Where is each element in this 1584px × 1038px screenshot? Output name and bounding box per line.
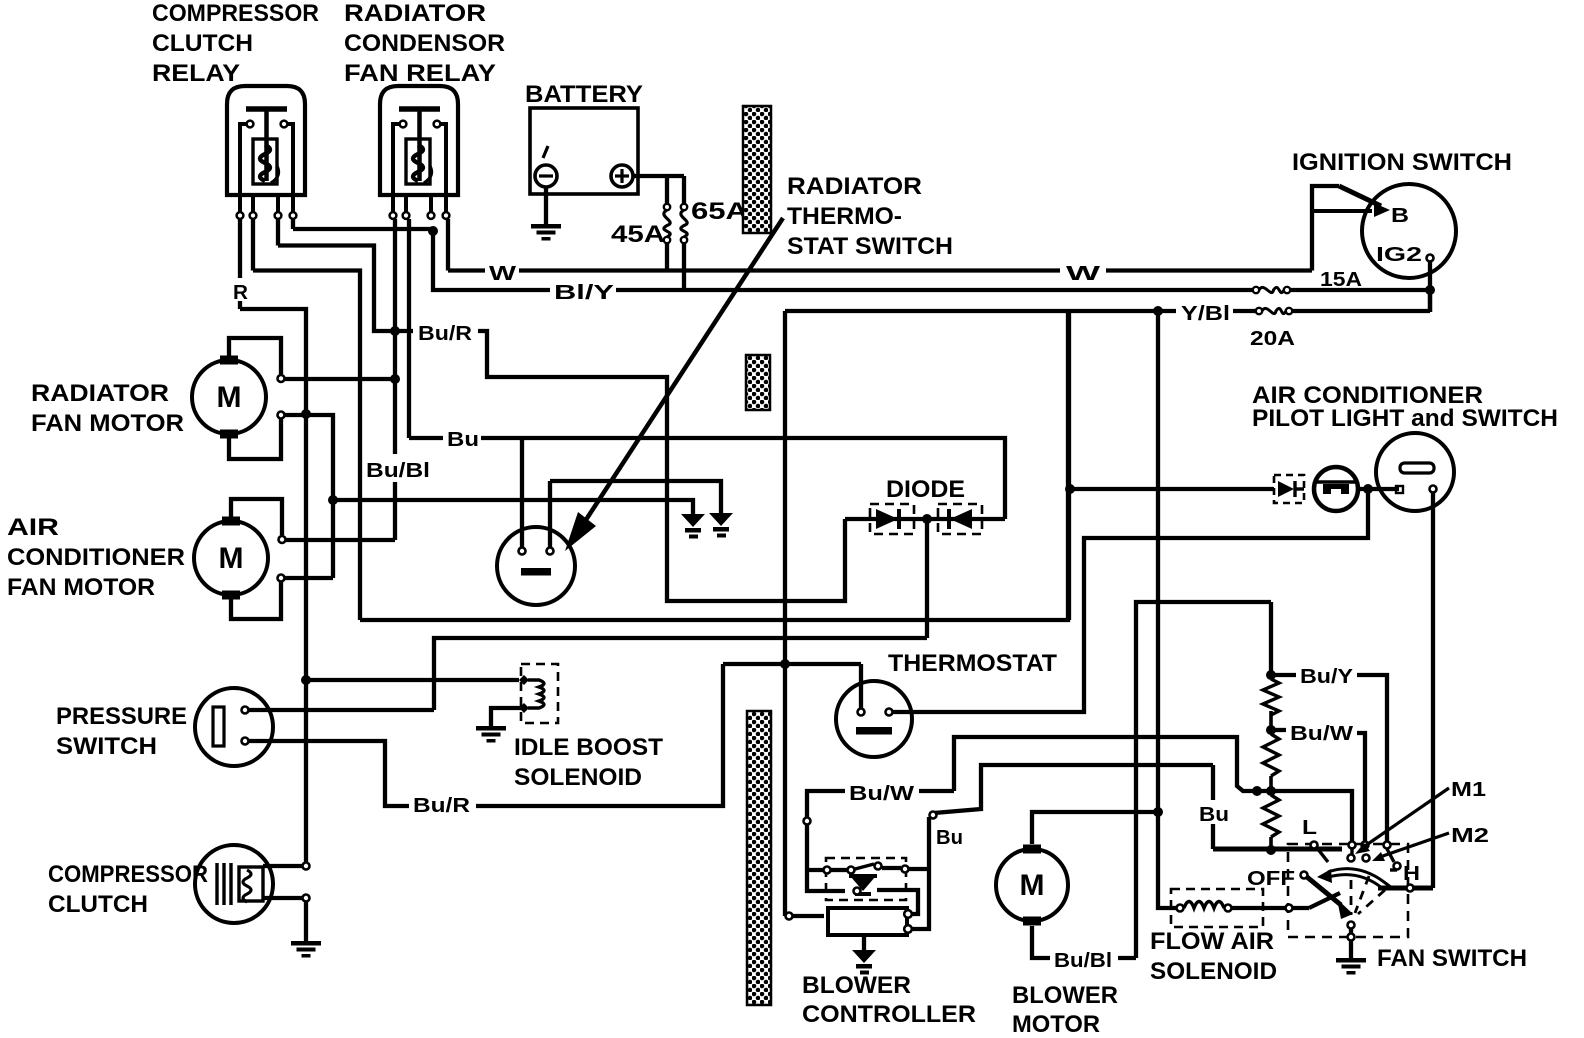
- idle boost solenoid coil: [519, 675, 544, 713]
- motor M3 blower: [996, 845, 1068, 926]
- svg-text:SOLENOID: SOLENOID: [1150, 958, 1277, 985]
- wire diode middle down to y638 bus: [925, 519, 929, 638]
- pilot lamp: [1314, 467, 1358, 511]
- wire M1 bottom wrap to lower terminal: [229, 419, 281, 459]
- svg-text:CONDENSOR: CONDENSOR: [344, 30, 505, 57]
- svg-text:THERMO-: THERMO-: [787, 203, 902, 230]
- wire K2 pin1 down Bu/Bl: [393, 219, 397, 540]
- flow air solenoid coil: [1177, 902, 1232, 912]
- node junction diode middle: [922, 514, 932, 524]
- blower controller switch: [805, 863, 929, 874]
- wire R net to idle boost solenoid: [306, 678, 519, 682]
- relay K2 radiator condensor fan relay: [380, 86, 458, 219]
- node junction y791 small: [1252, 786, 1262, 796]
- wire K2 pin2 to Bu label: [409, 219, 443, 438]
- svg-text:R: R: [233, 282, 249, 304]
- svg-text:DIODE: DIODE: [886, 476, 965, 503]
- wire Bu/Y to fan switch top: [1357, 675, 1387, 841]
- terminal clutch upper: [303, 863, 310, 870]
- svg-text:CONTROLLER: CONTROLLER: [802, 1001, 976, 1028]
- svg-text:SOLENOID: SOLENOID: [514, 764, 642, 791]
- wire battery negative to ground: [544, 187, 548, 224]
- svg-text:FAN MOTOR: FAN MOTOR: [7, 574, 155, 601]
- wire M1 lower terminal ground bus: [285, 415, 333, 578]
- svg-text:RELAY: RELAY: [152, 60, 240, 87]
- blower controller dashed box: [826, 858, 906, 900]
- svg-text:COMPRESSOR: COMPRESSOR: [152, 0, 319, 27]
- firewall hatch bar middle: [746, 355, 770, 410]
- contact M1: [1348, 842, 1356, 862]
- svg-text:Bu/Bl: Bu/Bl: [366, 460, 430, 482]
- svg-text:20A: 20A: [1250, 328, 1295, 350]
- label RADIATOR FAN MOTOR: [31, 380, 184, 437]
- wire M1 top to upper terminal: [229, 338, 281, 374]
- label COMPRESSOR CLUTCH: [48, 861, 208, 918]
- resistor zigzag 2: [1263, 734, 1279, 791]
- contact H circle on wire: [1407, 885, 1414, 892]
- wire W to ignition switch: [519, 268, 1312, 272]
- svg-text:RADIATOR: RADIATOR: [344, 0, 486, 27]
- fan switch rotor dashed rays: [1351, 876, 1385, 915]
- fan switch pivot to ground: [1348, 922, 1355, 959]
- diode D1: [876, 509, 899, 529]
- wire Y/Bl branch to thermostat: [723, 662, 861, 666]
- wire Y/Bl into resistor box: [785, 914, 824, 918]
- wire thermo switch right terminal to chassis arrow: [550, 481, 721, 547]
- ignition switch circle: [1362, 184, 1456, 278]
- wire pilot switch right down to fan switch H: [1431, 493, 1435, 888]
- label PRESSURE SWITCH: [56, 703, 187, 760]
- wire thermo switch left terminal to Bu wire: [520, 438, 524, 547]
- fuse 45A: [664, 176, 670, 271]
- wire y620 y638 verticals helper none: [0, 0, 1, 1]
- wire battery positive feed: [633, 174, 684, 178]
- pointer arrow to radiator thermostat switch: [565, 218, 783, 551]
- fan switch dashed box: [1288, 844, 1408, 937]
- svg-text:H: H: [1403, 863, 1420, 885]
- wire blower motor top: [1032, 812, 1158, 844]
- node junction pilot feed: [1065, 484, 1075, 494]
- wire thermostat left terminal riser: [859, 664, 863, 708]
- svg-text:IDLE BOOST: IDLE BOOST: [514, 734, 663, 761]
- diode D3: [1278, 481, 1304, 497]
- ground idle boost: [476, 726, 506, 743]
- relay K1 compressor clutch relay: [227, 86, 305, 219]
- resistor zigzag 1: [1263, 679, 1279, 730]
- pilot switch circle: [1376, 433, 1454, 511]
- fuse 65A: [681, 176, 687, 290]
- wire Bu/W tick: [1275, 728, 1286, 732]
- ground fan switch: [1336, 958, 1366, 975]
- wire long horizontal y620 to x1068 riser: [360, 311, 1068, 620]
- svg-text:W: W: [489, 263, 516, 285]
- node junction at K2 pin3: [428, 226, 438, 236]
- wire Y/Bl from riser corner to ignition: [785, 290, 1430, 312]
- battery BT1: [530, 108, 638, 194]
- svg-text:FAN RELAY: FAN RELAY: [344, 60, 496, 87]
- connector circle controller input: [786, 913, 793, 920]
- svg-text:SWITCH: SWITCH: [56, 733, 157, 760]
- diode D2: [949, 509, 972, 529]
- wire H contact to pilot switch: [1378, 886, 1433, 891]
- wire Bu from blower controller to fan switch L: [934, 765, 1342, 849]
- node junction Bu/R at K2 pin1: [390, 326, 400, 336]
- wire K1 pin4 to K2 pin3 junction: [293, 219, 433, 233]
- wire K1 pin3 to Bu/R label: [278, 219, 413, 331]
- wire Bu/Bl to AC fan motor upper terminal: [286, 538, 395, 542]
- diode D3 dashed box: [1274, 475, 1304, 503]
- svg-text:RADIATOR: RADIATOR: [787, 173, 922, 200]
- radiator thermostat switch circle: [497, 527, 575, 605]
- wire flow air to fan switch wiper: [1232, 893, 1340, 908]
- svg-text:Bu/R: Bu/R: [413, 795, 471, 817]
- label BLOWER CONTROLLER: [802, 972, 976, 1028]
- svg-text:BATTERY: BATTERY: [525, 81, 643, 108]
- wire Bu leg into controller: [912, 817, 929, 929]
- svg-text:W: W: [1066, 263, 1100, 285]
- wire R net - relay K1 pin1 down: [238, 219, 242, 309]
- chassis ground arrow right: [709, 513, 733, 538]
- terminal thermo switch left: [519, 548, 526, 555]
- svg-text:65A: 65A: [691, 198, 748, 225]
- terminal M1 upper: [278, 375, 285, 382]
- svg-text:BLOWER: BLOWER: [1012, 982, 1118, 1009]
- fan switch rotor arm: [1307, 877, 1353, 919]
- wire M2 bottom wrap to lower terminal: [231, 582, 281, 619]
- svg-text:PRESSURE: PRESSURE: [56, 703, 187, 730]
- terminal M2 upper: [279, 536, 286, 543]
- wire blower low to resistor top: [1136, 602, 1271, 958]
- terminal thermo switch right: [547, 548, 554, 555]
- label RADIATOR CONDENSOR FAN RELAY: [344, 0, 505, 87]
- terminal pilot switch left: [1396, 486, 1403, 493]
- wire M1 upper terminal to K2 pin1 junction: [285, 377, 395, 381]
- label BLOWER MOTOR: [1012, 982, 1118, 1038]
- svg-text:IG2: IG2: [1376, 244, 1422, 266]
- terminal pressure switch lower: [242, 738, 249, 745]
- wire diode row: [845, 517, 1005, 521]
- blower controller resistor box: [828, 908, 907, 935]
- motor M2 air conditioner fan: [194, 517, 268, 600]
- wire clutch lower to ground: [304, 901, 308, 941]
- wire Bu to diode row right: [481, 438, 1005, 519]
- wire Bu/W long from blower controller: [807, 737, 1352, 841]
- svg-text:Bu/R: Bu/R: [418, 323, 473, 345]
- diode D2 dashed box: [938, 504, 982, 534]
- node junction Y/Bl column at thermostat wire: [780, 659, 790, 669]
- svg-text:MOTOR: MOTOR: [1012, 1011, 1100, 1038]
- terminal M2 lower: [278, 575, 285, 582]
- label RADIATOR THERMO-STAT SWITCH: [787, 173, 953, 260]
- svg-text:THERMOSTAT: THERMOSTAT: [888, 650, 1057, 677]
- node junction Y/Bl column: [1153, 306, 1163, 316]
- label FLOW AIR SOLENOID: [1150, 928, 1277, 985]
- svg-text:M: M: [219, 542, 244, 575]
- terminal thermostat left: [858, 709, 865, 716]
- fuse 20A: [1256, 308, 1292, 314]
- svg-text:Bu: Bu: [1199, 804, 1229, 826]
- svg-text:FAN MOTOR: FAN MOTOR: [31, 410, 184, 437]
- svg-text:FAN SWITCH: FAN SWITCH: [1377, 945, 1527, 972]
- wire K1 pin2 to blower feed column x360: [253, 219, 360, 620]
- wire Bu/W leg into controller: [807, 825, 845, 891]
- connector circle Bu/W: [804, 818, 811, 825]
- wire M2 lower terminal to ground bus: [285, 576, 333, 580]
- wire Bu/R to diode row left: [478, 331, 845, 601]
- ground blower controller: [852, 950, 876, 975]
- svg-text:CLUTCH: CLUTCH: [152, 30, 253, 57]
- terminal controller right upper: [904, 910, 912, 918]
- contact OFF: [1301, 872, 1308, 879]
- wire M2 top to upper terminal: [231, 499, 282, 535]
- svg-text:CLUTCH: CLUTCH: [48, 891, 148, 918]
- label IDLE BOOST SOLENOID: [514, 734, 663, 791]
- terminal pilot switch right: [1430, 486, 1437, 493]
- label COMPRESSOR CLUTCH RELAY: [152, 0, 319, 87]
- svg-text:CONDITIONER: CONDITIONER: [7, 544, 185, 571]
- blower controller transistor: [849, 876, 877, 895]
- svg-text:COMPRESSOR: COMPRESSOR: [48, 861, 208, 888]
- svg-text:Bu/W: Bu/W: [1290, 723, 1353, 745]
- motor M1 radiator fan: [192, 356, 266, 439]
- wire 15A to IG2 junction: [1290, 288, 1430, 292]
- svg-text:M2: M2: [1451, 825, 1489, 847]
- terminal M1 lower: [278, 412, 285, 419]
- svg-text:PILOT LIGHT and SWITCH: PILOT LIGHT and SWITCH: [1252, 405, 1558, 432]
- diode D1 dashed box: [870, 504, 914, 534]
- svg-text:Bl/Y: Bl/Y: [554, 282, 615, 304]
- firewall hatch bar bottom: [747, 711, 771, 1005]
- contact M2: [1362, 842, 1370, 862]
- svg-text:Bu/Y: Bu/Y: [1300, 666, 1354, 688]
- wire pressure switch lower to Bu/R label: [249, 741, 409, 806]
- labels M1 M2 with pointers: [1355, 779, 1489, 861]
- node junction lamp-switch: [1363, 484, 1373, 494]
- svg-text:M: M: [217, 381, 242, 414]
- svg-text:RADIATOR: RADIATOR: [31, 380, 169, 407]
- label AIR CONDITIONER PILOT LIGHT and SWITCH: [1252, 382, 1558, 432]
- wire thermostat right to pilot light net: [893, 489, 1368, 712]
- svg-text:Bu/Bl: Bu/Bl: [1054, 950, 1112, 972]
- svg-text:Bu: Bu: [936, 827, 963, 849]
- svg-text:AIR: AIR: [7, 514, 59, 541]
- svg-text:Bu/W: Bu/W: [849, 783, 914, 805]
- idle boost solenoid dashed box: [521, 664, 558, 723]
- wire idle boost to ground: [491, 708, 521, 726]
- wire IG2 down to fuses: [1428, 261, 1432, 312]
- wire Bu/R to thermostat riser: [476, 664, 723, 806]
- node junction radiator motor upper at K2 pin1: [390, 374, 400, 384]
- node junction IG2 feed: [1425, 285, 1435, 295]
- thermostat circle: [836, 681, 912, 757]
- ground battery: [531, 224, 561, 241]
- svg-text:OFF: OFF: [1247, 868, 1295, 890]
- wire resistor box to ground: [862, 935, 866, 950]
- node junction Bu/Y tap: [1266, 670, 1276, 680]
- svg-text:45A: 45A: [611, 221, 665, 248]
- svg-text:IGNITION SWITCH: IGNITION SWITCH: [1292, 149, 1512, 176]
- wire clutch coil to terminals: [263, 866, 302, 898]
- resistor zigzag 3: [1263, 795, 1279, 850]
- compressor clutch: [195, 845, 273, 923]
- wire Bu/Y tick: [1275, 673, 1296, 677]
- connector circle flow air wire: [1286, 905, 1293, 912]
- terminal controller right lower: [904, 925, 912, 933]
- wire y638 bus to pressure switch riser: [434, 638, 927, 710]
- node junction R/radiator-motor-low: [301, 409, 311, 419]
- wire ground bus to chassis arrow: [333, 500, 693, 514]
- ground compressor clutch: [291, 941, 321, 958]
- svg-text:M: M: [1020, 869, 1045, 902]
- connector circle Bu: [930, 812, 937, 819]
- ignition switch arm to B: [1312, 186, 1390, 271]
- connector circle fan switch bottom: [1348, 934, 1355, 941]
- svg-text:M1: M1: [1451, 779, 1486, 801]
- terminal IG2 circle: [1427, 255, 1434, 262]
- wire Y/Bl main riser: [783, 311, 787, 916]
- resistor chain upper segment: [1269, 602, 1273, 671]
- chassis ground arrow left: [681, 514, 705, 539]
- wire Bu/W tap to M2 contact: [1357, 733, 1365, 841]
- node junction R/idle-boost: [301, 675, 311, 685]
- contact L: [1311, 842, 1329, 863]
- svg-text:15A: 15A: [1320, 269, 1362, 291]
- node junction ground bus / chassis wire: [328, 495, 338, 505]
- pressure switch circle: [195, 688, 273, 766]
- fan switch wiper arc: [1317, 869, 1392, 888]
- node junction M1 wire tap: [1266, 786, 1276, 796]
- wire Bl/Y to 15A fuse and ignition: [616, 288, 1253, 292]
- wire pilot light feed: [1070, 487, 1274, 491]
- terminal pressure switch upper: [242, 707, 249, 714]
- svg-text:Y/Bl: Y/Bl: [1181, 303, 1230, 325]
- svg-text:FLOW AIR: FLOW AIR: [1150, 928, 1274, 955]
- wire Y/Bl column to flow air solenoid: [1158, 311, 1176, 908]
- terminal thermostat right: [886, 709, 893, 716]
- svg-text:BLOWER: BLOWER: [802, 972, 911, 999]
- wire K2 pin3 to Bl/Y: [433, 231, 550, 290]
- fuse 15A: [1253, 287, 1290, 293]
- node junction Bu/W tap: [1266, 725, 1276, 735]
- node junction blower top at Y/Bl column: [1153, 807, 1163, 817]
- svg-text:Bu: Bu: [447, 429, 479, 451]
- wire K2 pin4 to W label: [448, 219, 485, 271]
- label AIR CONDITIONER FAN MOTOR: [7, 514, 185, 601]
- flow air solenoid dashed box: [1171, 889, 1263, 927]
- svg-text:B: B: [1391, 205, 1409, 227]
- contact H top: [1384, 842, 1401, 871]
- wire lamp to switch: [1358, 487, 1399, 491]
- wire R net to compressor clutch column: [240, 309, 306, 862]
- firewall hatch bar top: [743, 106, 771, 233]
- wire blower motor bottom Bu/Bl: [1032, 926, 1136, 958]
- terminal clutch lower: [303, 895, 310, 902]
- node junction resistor bottom L wire: [1266, 845, 1276, 855]
- svg-text:L: L: [1302, 817, 1317, 839]
- wire pressure switch upper to y638 riser: [249, 708, 434, 712]
- wire x1069 riser Y/Bl: [1067, 311, 1071, 620]
- wire transistor output hook: [877, 890, 918, 914]
- svg-text:STAT SWITCH: STAT SWITCH: [787, 233, 953, 260]
